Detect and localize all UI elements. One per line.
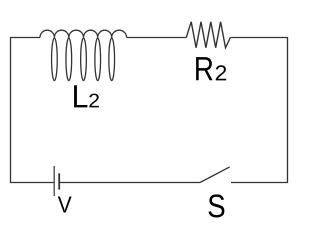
label L2 letter L: [74, 85, 87, 107]
wire top middle between L2 and R2: [127, 37, 187, 39]
label R2 subscript 2: [216, 65, 226, 80]
label S: [209, 194, 225, 217]
inductor L2 loop 3: [81, 38, 87, 81]
inductor L2 loop 5: [109, 38, 115, 81]
label L2 subscript 2: [89, 94, 99, 108]
inductor L2 loop 4: [95, 38, 101, 81]
inductor L2 loop 2: [66, 38, 72, 81]
inductor L2 loop 1: [52, 38, 58, 81]
wire bottom middle from battery to switch pivot: [59, 182, 200, 184]
battery V long plate: [53, 166, 55, 196]
label V: [58, 197, 72, 213]
wire from inductor L2 left terminal via top-left corner, left side, bottom-left corner to battery positive plate: [11, 38, 55, 183]
label R2 letter R: [196, 57, 213, 80]
inductor L2 arcs: [40, 30, 127, 37]
switch S lever: [200, 167, 230, 183]
wire from resistor R2 right terminal via top-right corner, right side, bottom-right corner to switch fixed contact: [230, 38, 287, 183]
battery V short plate: [58, 173, 60, 189]
resistor R2 zigzag: [186, 22, 230, 48]
